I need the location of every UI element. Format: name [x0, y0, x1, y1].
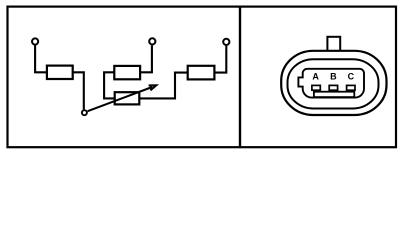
potentiometer track [115, 92, 140, 104]
wire R2 to terminal 2 [140, 45, 152, 72]
wire left bracket joining R2 and potentiometer [104, 72, 115, 98]
connector inner shell [288, 59, 379, 108]
resistor R2 [114, 66, 140, 79]
terminal 3 [223, 39, 229, 45]
connector pin housing with left key notch [298, 69, 364, 98]
connector top tab [327, 37, 340, 51]
resistor R1 [47, 66, 73, 79]
wiper arrow (diagonal through potentiometer) [88, 87, 153, 111]
resistor R3 [188, 66, 215, 80]
wire terminal 1 to R1 [35, 45, 47, 72]
svg-text:B: B [330, 72, 337, 82]
wiper node (open junction) [82, 110, 87, 115]
wire R1 to wiper node [73, 72, 84, 109]
wire potentiometer to R3 [139, 73, 187, 99]
pin socket C [347, 85, 355, 90]
connector outer shell [281, 51, 386, 115]
svg-text:C: C [348, 72, 355, 82]
housing bottom bar [314, 92, 354, 97]
terminal 1 [32, 38, 38, 44]
wire R3 to terminal 3 [214, 46, 226, 73]
terminal 2 [149, 38, 155, 44]
pin socket A [312, 85, 320, 90]
svg-text:A: A [312, 72, 319, 82]
pin socket B [329, 85, 337, 90]
